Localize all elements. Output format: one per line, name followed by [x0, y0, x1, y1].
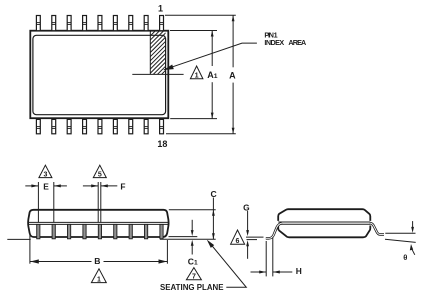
top row pin shoulder marks — [36, 23, 163, 25]
svg-text:INDEX: INDEX — [264, 38, 284, 47]
end view parting line lower — [278, 223, 370, 225]
svg-text:1: 1 — [195, 71, 199, 80]
svg-text:H: H — [296, 266, 302, 276]
dimension C1 arrows — [191, 220, 193, 231]
svg-text:G: G — [243, 202, 250, 212]
pin 1 index area hatch — [107, 30, 206, 75]
svg-text:5: 5 — [98, 171, 102, 178]
svg-text:E: E — [43, 181, 49, 191]
dimension A1 line — [211, 31, 213, 119]
seating plane line far left — [7, 238, 30, 240]
svg-text:AREA: AREA — [288, 38, 306, 47]
note triangle 1 side view — [91, 269, 106, 283]
svg-text:B: B — [94, 256, 100, 266]
dimension E extension lines — [37, 182, 39, 222]
dimension G arrows — [247, 211, 249, 231]
pin 1 index area leader line — [164, 43, 257, 70]
top view body outer outline — [30, 31, 168, 119]
pin 1 index area leader arrowhead — [164, 65, 174, 71]
side view parting line upper — [28, 221, 168, 223]
svg-text:7: 7 — [192, 273, 196, 280]
svg-text:C: C — [210, 189, 216, 199]
svg-text:SEATING PLANE: SEATING PLANE — [160, 283, 224, 292]
top row pins — [36, 16, 163, 31]
dimension B arrowheads — [30, 259, 39, 263]
svg-text:θ: θ — [403, 253, 407, 262]
svg-text:F: F — [120, 182, 125, 192]
note triangle 6 — [231, 230, 245, 244]
svg-text:6: 6 — [236, 238, 240, 245]
dimension A1 extension line bottom — [170, 118, 217, 120]
side view parting line lower — [28, 223, 168, 225]
theta foot top extension line — [385, 232, 415, 234]
right lead — [370, 223, 385, 234]
theta up arrow — [412, 249, 415, 255]
svg-text:3: 3 — [43, 171, 47, 178]
dimension B extension line left — [29, 234, 31, 264]
side view leads — [37, 224, 163, 238]
lead foot top extension line — [246, 236, 264, 238]
note triangle 7 — [186, 268, 201, 280]
dimension A1 arrowheads — [211, 31, 214, 37]
dimension F extension lines — [97, 182, 99, 222]
bottom row pin shoulder marks — [36, 127, 163, 129]
dimension C extension line top — [169, 209, 216, 211]
theta angled line — [385, 239, 416, 242]
dimension A line — [232, 15, 234, 134]
end view body outline — [278, 209, 370, 237]
top view body inner outline — [33, 35, 166, 114]
dimension A arrowheads — [232, 15, 235, 21]
dimension B line — [30, 261, 168, 263]
note triangle 3 — [39, 165, 52, 177]
index area left boundary — [149, 32, 151, 75]
note triangle 5 — [93, 165, 106, 177]
seating plane leader line — [209, 242, 247, 288]
seating plane leader arrowhead — [207, 240, 214, 248]
dimension B extension line right — [166, 240, 168, 264]
body bottom extension line for C1 — [169, 236, 198, 238]
svg-text:18: 18 — [157, 139, 167, 149]
lead foot bottom extension line — [247, 239, 258, 241]
dimension A extension line top — [165, 14, 236, 16]
dimension C line — [212, 198, 214, 240]
seating plane line right — [160, 238, 216, 240]
bottom row pins — [36, 119, 163, 133]
svg-text:A: A — [229, 71, 236, 81]
svg-text:1: 1 — [97, 276, 101, 283]
note triangle 1 top view — [190, 66, 203, 79]
dimension H arrows — [251, 271, 267, 273]
index area bottom line — [132, 73, 183, 75]
dimension E arrows — [25, 185, 38, 187]
side view body outline — [28, 210, 169, 237]
svg-text:1: 1 — [158, 3, 163, 13]
left lead — [266, 223, 282, 238]
dimension C arrowheads — [212, 210, 215, 216]
dimension A extension line bottom — [166, 133, 236, 135]
theta down arrow — [412, 221, 414, 227]
end view parting line upper — [278, 221, 370, 223]
dimension A1 extension line top — [170, 30, 217, 32]
dimension H extension lines — [265, 241, 267, 276]
dimension F arrows — [83, 185, 98, 187]
